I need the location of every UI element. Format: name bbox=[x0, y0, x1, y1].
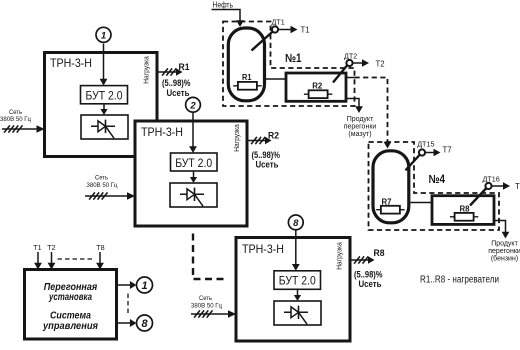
heater R2 resistor bbox=[304, 81, 332, 98]
svg-text:Т2: Т2 bbox=[47, 243, 55, 252]
wire: dashed ellipsis between output circles bbox=[127, 294, 129, 316]
svg-text:ДТ1: ДТ1 bbox=[272, 18, 285, 27]
wire: dashed continuation ellipsis block2 to block3 bbox=[193, 234, 228, 280]
sensor DT2 bbox=[333, 51, 357, 82]
hatch on block3 supply wire bbox=[194, 310, 212, 317]
control unit box (distillation plant control system) bbox=[25, 270, 117, 340]
wire: transfer line unit1 to unit4 (dashed) bbox=[346, 78, 391, 149]
wire: DT2 to T2 arrow bbox=[353, 59, 369, 67]
thyristor power stage (block3) bbox=[274, 301, 321, 325]
svg-text:R7: R7 bbox=[382, 198, 393, 207]
svg-text:(мазут): (мазут) bbox=[348, 131, 371, 138]
controller BUT 2.0 (block1) bbox=[81, 86, 128, 104]
wire: DT15 to T7 arrow bbox=[425, 149, 440, 157]
heater R8 resistor bbox=[450, 204, 478, 220]
node circle 1 (control signal) bbox=[96, 27, 111, 42]
wire: tank1 to heater box R2 bbox=[265, 78, 287, 80]
svg-text:ТРН-3-Н: ТРН-3-Н bbox=[242, 242, 284, 256]
unit No1 dashed enclosure bbox=[223, 22, 355, 107]
svg-text:Сеть: Сеть bbox=[199, 295, 212, 302]
node circle 8 (control block output) bbox=[137, 315, 153, 331]
svg-text:Система: Система bbox=[50, 311, 91, 322]
svg-text:(5..98)%: (5..98)% bbox=[354, 270, 383, 280]
thyristor power stage (block1) bbox=[81, 115, 128, 139]
svg-text:Продукт: Продукт bbox=[491, 241, 518, 248]
wire: mains supply into block1 bbox=[2, 125, 45, 133]
svg-text:БУТ 2.0: БУТ 2.0 bbox=[279, 274, 316, 288]
svg-text:8: 8 bbox=[293, 218, 299, 229]
svg-text:установка: установка bbox=[48, 292, 92, 303]
wire: block1 load output R1 bbox=[157, 68, 183, 76]
heater R1 resistor in tank1 bbox=[233, 73, 261, 90]
svg-text:перегонки: перегонки bbox=[488, 248, 520, 255]
svg-text:Т7: Т7 bbox=[443, 145, 452, 154]
svg-text:R2: R2 bbox=[312, 81, 323, 90]
wire: tank4 to heater box R8 bbox=[411, 202, 433, 204]
controller BUT 2.0 (block2) bbox=[171, 153, 218, 171]
tank vessel 4 bbox=[373, 151, 409, 223]
wire: DT16 to T8 arrow bbox=[492, 182, 510, 190]
wire: block3 load output R8 bbox=[350, 256, 375, 264]
wire: control output arrow to circle 1 bbox=[117, 281, 137, 289]
wire: circle8 to BUT3 arrow bbox=[292, 230, 300, 271]
svg-text:Uсеть: Uсеть bbox=[256, 160, 279, 170]
svg-text:БУТ 2.0: БУТ 2.0 bbox=[86, 89, 123, 103]
svg-text:ДТ15: ДТ15 bbox=[417, 139, 434, 148]
hatch on block1 supply wire bbox=[4, 125, 22, 132]
svg-text:1: 1 bbox=[141, 280, 147, 292]
svg-text:ТРН-3-Н: ТРН-3-Н bbox=[50, 56, 92, 70]
svg-text:(5..98)%: (5..98)% bbox=[252, 150, 281, 160]
svg-text:(бензин): (бензин) bbox=[491, 255, 518, 263]
svg-text:R8: R8 bbox=[374, 248, 385, 259]
wire: block2 load output R2 bbox=[247, 137, 272, 145]
hatch on R8 output bbox=[354, 256, 368, 263]
svg-text:R1: R1 bbox=[179, 62, 191, 73]
node circle 2 (control signal) bbox=[186, 97, 201, 112]
svg-text:(5..98)%: (5..98)% bbox=[162, 78, 191, 88]
svg-text:управления: управления bbox=[42, 321, 98, 332]
sensor DT16 bbox=[470, 175, 500, 206]
wire: BUT1 to thyristor1 arrow bbox=[100, 104, 107, 115]
svg-text:1: 1 bbox=[101, 31, 106, 42]
svg-text:ДТ16: ДТ16 bbox=[483, 175, 500, 184]
regulator block U2 TRN-3-N bbox=[135, 121, 247, 226]
wire: circle2 to BUT2 arrow bbox=[189, 113, 197, 153]
label product benzin bbox=[488, 241, 520, 263]
wire: DT1 to T1 arrow bbox=[278, 26, 297, 34]
svg-text:Нагрузка: Нагрузка bbox=[232, 124, 241, 152]
heater box R2 bbox=[286, 73, 346, 101]
svg-text:Нагрузка: Нагрузка bbox=[335, 242, 344, 270]
regulator block U1 TRN-3-N bbox=[45, 53, 158, 157]
heater box R8 bbox=[432, 196, 494, 225]
svg-text:R2: R2 bbox=[268, 131, 279, 142]
svg-text:Продукт: Продукт bbox=[347, 116, 374, 123]
wire: mains supply into block2 bbox=[85, 192, 135, 200]
thyristor power stage (block2) bbox=[170, 183, 217, 207]
svg-text:Сеть: Сеть bbox=[95, 175, 108, 182]
wire: mains supply into block3 bbox=[191, 310, 236, 318]
wire: oil feed into tank1 bbox=[212, 10, 244, 28]
svg-text:Сеть: Сеть bbox=[9, 109, 22, 116]
hatch on R1 output bbox=[162, 68, 176, 75]
svg-text:380В 50 Гц: 380В 50 Гц bbox=[0, 116, 31, 123]
svg-text:Uсеть: Uсеть bbox=[359, 279, 382, 289]
controller BUT 2.0 (block3) bbox=[274, 271, 321, 290]
heater R7 resistor in tank4 bbox=[376, 198, 404, 214]
wire: T1 arrow into control block bbox=[34, 252, 42, 270]
svg-text:2: 2 bbox=[189, 101, 196, 112]
svg-text:Нефть: Нефть bbox=[213, 1, 234, 10]
sensor DT1 bbox=[252, 18, 285, 51]
svg-text:№4: №4 bbox=[429, 172, 446, 186]
unit No4 dashed enclosure bbox=[369, 142, 500, 230]
wire: BUT3 to thyristor3 arrow bbox=[294, 289, 301, 301]
sensor DT15 bbox=[406, 139, 435, 170]
svg-text:380В 50 Гц: 380В 50 Гц bbox=[87, 182, 118, 189]
svg-text:Т2: Т2 bbox=[376, 60, 385, 69]
svg-text:ТРН-3-Н: ТРН-3-Н bbox=[141, 125, 183, 139]
svg-text:R8: R8 bbox=[460, 204, 471, 213]
svg-text:БУТ 2.0: БУТ 2.0 bbox=[175, 156, 212, 170]
regulator block U8 TRN-3-N bbox=[236, 238, 350, 342]
svg-text:Uсеть: Uсеть bbox=[167, 88, 190, 98]
svg-text:380В 50 Гц: 380В 50 Гц bbox=[191, 303, 222, 310]
label Peregonnaya ustanovka / Sistema upravleniya bbox=[42, 282, 98, 332]
hatch on R2 output bbox=[251, 137, 265, 144]
svg-text:перегонки: перегонки bbox=[344, 124, 377, 131]
svg-text:Т1: Т1 bbox=[33, 243, 41, 252]
svg-text:Т8: Т8 bbox=[515, 182, 520, 191]
svg-text:8: 8 bbox=[141, 318, 148, 330]
tank vessel 1 bbox=[228, 28, 264, 101]
wire: circle1 to BUT1 arrow bbox=[100, 44, 108, 86]
node circle 8 (control signal) bbox=[288, 215, 303, 230]
wire: control output arrow to circle 8 bbox=[117, 319, 137, 327]
svg-text:ДТ2: ДТ2 bbox=[344, 51, 357, 60]
wire: T2 arrow into control block bbox=[48, 252, 56, 270]
svg-text:Т1: Т1 bbox=[301, 26, 310, 35]
wire: product outlet of unit1 (mazut) bbox=[346, 99, 363, 114]
svg-text:R1..R8 - нагреватели: R1..R8 - нагреватели bbox=[420, 275, 499, 286]
svg-text:Т8: Т8 bbox=[96, 243, 104, 252]
hatch on block2 supply wire bbox=[89, 192, 107, 199]
label product mazut bbox=[344, 116, 377, 138]
svg-text:R1: R1 bbox=[242, 73, 252, 82]
svg-text:Нагрузка: Нагрузка bbox=[142, 56, 151, 84]
wire: product outlet of unit4 (benzin) bbox=[494, 221, 509, 239]
svg-text:№1: №1 bbox=[285, 51, 302, 65]
wire: dashed ellipsis between T2 and T8 bbox=[58, 258, 95, 260]
wire: BUT2 to thyristor2 arrow bbox=[190, 171, 197, 183]
node circle 1 (control block output) bbox=[137, 277, 153, 293]
wire: T8 arrow into control block bbox=[96, 252, 104, 270]
